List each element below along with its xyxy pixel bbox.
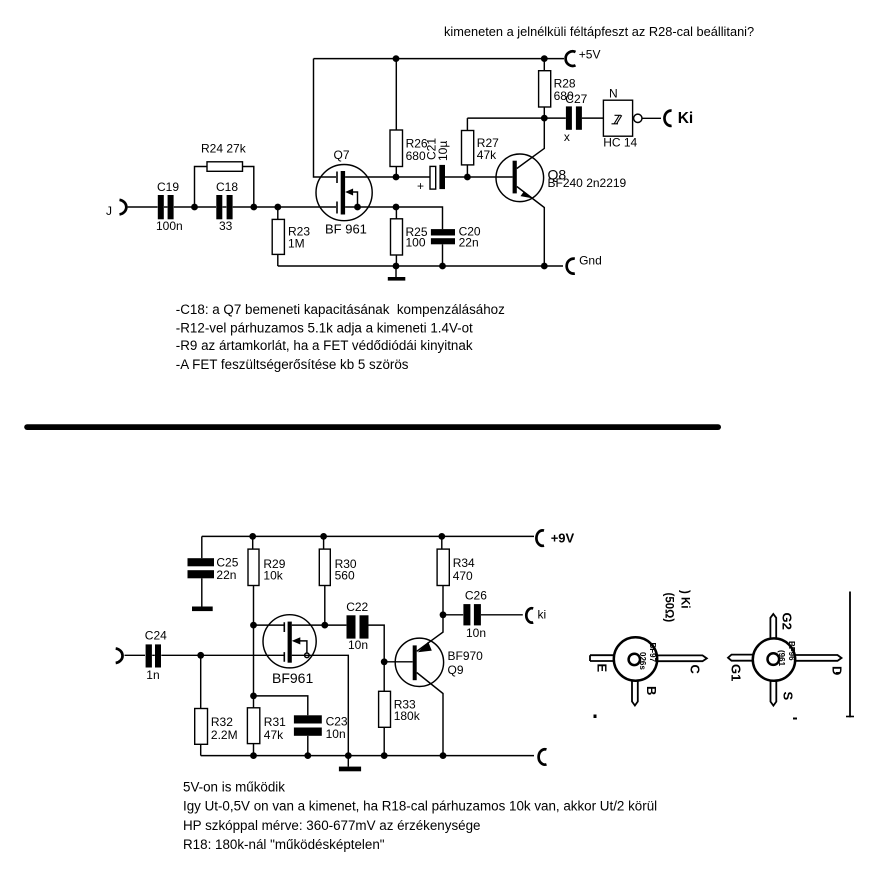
svg-text:ki: ki bbox=[538, 608, 547, 622]
svg-text:10µ: 10µ bbox=[436, 141, 450, 161]
svg-text:Igy Ut-0,5V on van a kimenet,: Igy Ut-0,5V on van a kimenet, ha R18-cal… bbox=[183, 799, 657, 814]
svg-text:BF961: BF961 bbox=[272, 670, 313, 686]
svg-text:-C18: a Q7 bemeneti kapacitásá: -C18: a Q7 bemeneti kapacitásának kompen… bbox=[176, 302, 505, 317]
svg-text:180k: 180k bbox=[394, 709, 421, 723]
svg-text:R24 27k: R24 27k bbox=[201, 142, 247, 156]
svg-text:C26: C26 bbox=[465, 588, 487, 602]
svg-text:100n: 100n bbox=[156, 219, 183, 233]
svg-text:R18: 180k-nál "működésképtelen: R18: 180k-nál "működésképtelen" bbox=[183, 837, 385, 852]
svg-text:HP szkóppal mérve: 360-677mV a: HP szkóppal mérve: 360-677mV az érzékeny… bbox=[183, 818, 480, 833]
svg-text:Ki: Ki bbox=[678, 110, 694, 127]
svg-text:Q7: Q7 bbox=[334, 148, 350, 162]
svg-text:C19: C19 bbox=[157, 180, 179, 194]
svg-text:E: E bbox=[595, 664, 610, 673]
svg-text:1M: 1M bbox=[288, 237, 305, 251]
svg-text:J: J bbox=[106, 204, 112, 218]
svg-text:BF970: BF970 bbox=[448, 649, 484, 663]
svg-text:G2: G2 bbox=[780, 613, 795, 630]
svg-text:2.2M: 2.2M bbox=[211, 728, 238, 742]
svg-text:100: 100 bbox=[406, 235, 426, 249]
svg-text:C22: C22 bbox=[346, 600, 368, 614]
svg-text:kimeneten a jelnélküli féltápf: kimeneten a jelnélküli féltápfeszt az R2… bbox=[444, 24, 754, 39]
svg-text:470: 470 bbox=[453, 569, 473, 583]
svg-text:(50Ω): (50Ω) bbox=[663, 593, 675, 623]
svg-text:BF97: BF97 bbox=[648, 643, 657, 663]
svg-text:Gnd: Gnd bbox=[579, 254, 602, 268]
svg-text:S: S bbox=[781, 692, 796, 701]
svg-text:560: 560 bbox=[335, 569, 355, 583]
svg-text:026s: 026s bbox=[638, 652, 647, 670]
svg-text:47k: 47k bbox=[477, 148, 497, 162]
svg-text:22n: 22n bbox=[459, 235, 479, 249]
svg-text:C27: C27 bbox=[565, 92, 587, 106]
svg-text:10n: 10n bbox=[466, 626, 486, 640]
svg-text:G1: G1 bbox=[729, 664, 744, 681]
svg-text:1n: 1n bbox=[146, 668, 159, 682]
svg-text:) Ki: ) Ki bbox=[679, 590, 691, 609]
svg-text:+5V: +5V bbox=[579, 48, 601, 62]
svg-text:-R12-vel párhuzamos 5.1k adja: -R12-vel párhuzamos 5.1k adja a kimeneti… bbox=[176, 320, 473, 335]
svg-text:BF240 2n2219: BF240 2n2219 bbox=[548, 176, 627, 190]
svg-text:680: 680 bbox=[406, 149, 426, 163]
svg-text:C: C bbox=[688, 665, 703, 675]
svg-text:47k: 47k bbox=[264, 728, 284, 742]
svg-text:C18: C18 bbox=[216, 180, 238, 194]
svg-text:33: 33 bbox=[219, 219, 233, 233]
svg-text:+9V: +9V bbox=[551, 531, 575, 546]
svg-text:BF96: BF96 bbox=[787, 641, 796, 661]
svg-text:Q9: Q9 bbox=[448, 663, 464, 677]
svg-text:(961: (961 bbox=[777, 650, 786, 667]
svg-text:22n: 22n bbox=[216, 568, 236, 582]
svg-text:+: + bbox=[417, 179, 424, 193]
svg-text:5V-on is működik: 5V-on is működik bbox=[183, 780, 285, 795]
svg-text:N: N bbox=[609, 86, 618, 100]
svg-text:BF 961: BF 961 bbox=[325, 221, 367, 236]
svg-text:B: B bbox=[644, 686, 659, 695]
svg-text:-A FET feszültségerősítése kb: -A FET feszültségerősítése kb 5 szörös bbox=[176, 357, 409, 372]
svg-text:C24: C24 bbox=[145, 628, 167, 642]
svg-text:10n: 10n bbox=[326, 727, 346, 741]
svg-text:HC 14: HC 14 bbox=[603, 136, 637, 150]
svg-text:x: x bbox=[564, 130, 570, 144]
svg-text:-R9 az ártamkorlát, ha a FET v: -R9 az ártamkorlát, ha a FET védődiódái … bbox=[176, 338, 473, 353]
svg-text:10k: 10k bbox=[263, 569, 283, 583]
svg-text:10n: 10n bbox=[348, 638, 368, 652]
